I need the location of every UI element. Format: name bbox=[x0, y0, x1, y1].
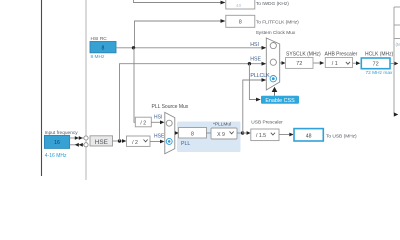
wire /2 to PLL source mux bbox=[151, 121, 160, 123]
multiplier dropdown X 9 bbox=[211, 128, 237, 139]
svg-text:HSE: HSE bbox=[154, 134, 165, 140]
box To USB 48 bbox=[294, 129, 323, 141]
svg-text:72: 72 bbox=[296, 61, 302, 67]
left panel divider line bbox=[41, 0, 43, 176]
svg-text:HSI RC: HSI RC bbox=[91, 36, 108, 42]
svg-text:8: 8 bbox=[191, 131, 194, 137]
prescaler dropdown /1.5 bbox=[251, 129, 279, 141]
svg-text:40: 40 bbox=[236, 3, 242, 8]
svg-text:4-16 MHz: 4-16 MHz bbox=[45, 153, 67, 159]
svg-text:16: 16 bbox=[54, 140, 60, 146]
output stack left edge bbox=[393, 7, 395, 114]
mux PLL source bbox=[165, 112, 175, 153]
PLL input box 8 bbox=[179, 128, 207, 139]
svg-text:/ 1.5: / 1.5 bbox=[256, 133, 266, 139]
prescaler dropdown /1 bbox=[325, 58, 352, 68]
svg-text:HSI: HSI bbox=[250, 42, 259, 48]
svg-text:/ 2: / 2 bbox=[140, 121, 146, 127]
svg-text:8 MHz: 8 MHz bbox=[91, 54, 105, 60]
box To IWDG value 40 bbox=[226, 0, 255, 9]
box HCLK 72 bbox=[361, 58, 390, 69]
svg-text:PLLCLK: PLLCLK bbox=[250, 73, 270, 79]
wire USB prescaler to USB box bbox=[279, 134, 289, 136]
svg-text:To USB (MHz): To USB (MHz) bbox=[326, 134, 357, 140]
svg-text:48: 48 bbox=[306, 133, 312, 139]
junction HSI node bbox=[132, 46, 135, 49]
svg-text:HSI: HSI bbox=[154, 115, 162, 121]
pin OSC_IN bbox=[84, 136, 88, 140]
svg-text:Enable CSS: Enable CSS bbox=[265, 98, 295, 104]
svg-text:72 MHz max: 72 MHz max bbox=[366, 70, 394, 76]
svg-text:8: 8 bbox=[102, 46, 105, 52]
svg-text:SYSCLK (MHz): SYSCLK (MHz) bbox=[286, 51, 321, 57]
wire HSI to system clock mux bbox=[116, 47, 262, 49]
svg-text:/ 2: / 2 bbox=[132, 140, 138, 146]
wire to PLLMul bbox=[207, 132, 212, 134]
junction HSE-CSS node bbox=[248, 62, 251, 65]
junction HSE node bbox=[118, 139, 121, 142]
wire mux to SYSCLK bbox=[280, 62, 282, 64]
svg-text:PLL Source Mux: PLL Source Mux bbox=[152, 104, 189, 110]
divider /2 (HSI to PLL) bbox=[135, 117, 151, 127]
wire SYSCLK to AHB bbox=[314, 62, 320, 64]
wire OSC_IN bbox=[70, 137, 84, 139]
wire HSI to FLITFCLK bbox=[135, 21, 221, 48]
wire to APB output bbox=[394, 112, 399, 116]
wire LSI to IWDG bbox=[134, 0, 221, 3]
wire PLL mux to PLL input box bbox=[174, 132, 177, 134]
svg-text:X 9: X 9 bbox=[217, 132, 225, 138]
chip boundary line bbox=[85, 0, 87, 180]
divider dropdown /2 (HSE to PLL) bbox=[127, 136, 151, 146]
svg-text:*PLLMul: *PLLMul bbox=[213, 121, 231, 127]
svg-text:To IWDG (KHz): To IWDG (KHz) bbox=[256, 1, 289, 7]
svg-text:To FLITFCLK (MHz): To FLITFCLK (MHz) bbox=[256, 19, 299, 25]
svg-text:HCLK (MHz): HCLK (MHz) bbox=[365, 51, 394, 57]
svg-text:USB Prescaler: USB Prescaler bbox=[251, 119, 283, 125]
svg-text:HSE: HSE bbox=[250, 56, 261, 62]
svg-text:(M: (M bbox=[396, 42, 400, 47]
svg-text:72: 72 bbox=[372, 62, 378, 68]
wire to USB prescaler bbox=[242, 132, 246, 134]
wire HCLK out bbox=[390, 63, 395, 65]
wire HSE out bbox=[113, 140, 123, 142]
wire CSS to mux bbox=[274, 92, 276, 96]
button Enable CSS bbox=[261, 96, 299, 104]
PLL panel bbox=[177, 122, 241, 153]
wire PLLCLK out bbox=[237, 132, 247, 134]
svg-text:System Clock Mux: System Clock Mux bbox=[256, 30, 296, 36]
wire HSE up to system clock mux bbox=[120, 64, 262, 141]
wire AHB to HCLK bbox=[353, 62, 357, 64]
svg-text:/ 1: / 1 bbox=[332, 61, 338, 67]
wire PLLCLK up to system clock mux bbox=[243, 80, 262, 133]
oscillator HSE bbox=[90, 136, 113, 146]
svg-text:AHB Prescaler: AHB Prescaler bbox=[325, 51, 358, 57]
box SYSCLK 72 bbox=[286, 58, 314, 69]
wire HSI down to /2 divider bbox=[134, 48, 135, 123]
output stack row separators bbox=[394, 6, 400, 8]
svg-text:PLL: PLL bbox=[181, 141, 190, 147]
wire HSE down to Enable CSS bbox=[249, 64, 256, 100]
oscillator HSI RC bbox=[90, 42, 116, 53]
junction PLLCLK node bbox=[241, 131, 244, 134]
wire HSE /2 to PLL source mux bbox=[150, 141, 160, 143]
box To FLITFCLK value 8 bbox=[226, 15, 255, 27]
wire OSC_OUT bbox=[70, 144, 84, 146]
svg-text:8: 8 bbox=[239, 20, 242, 26]
pin OSC_OUT bbox=[84, 143, 88, 147]
input frequency box 16 bbox=[44, 135, 69, 148]
svg-text:HSE: HSE bbox=[95, 139, 108, 146]
mux System Clock bbox=[266, 38, 279, 90]
